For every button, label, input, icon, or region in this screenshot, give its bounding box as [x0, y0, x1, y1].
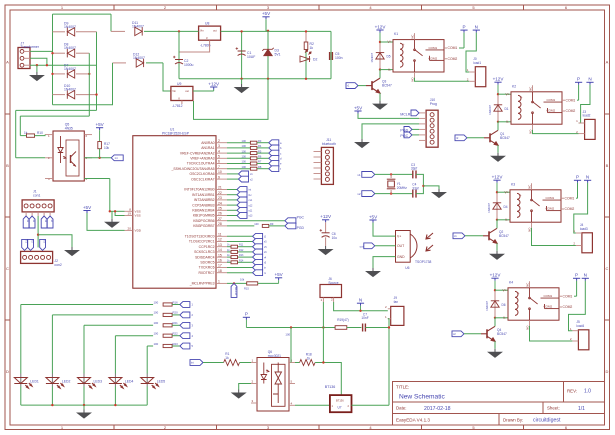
svg-text:COM2: COM2 [566, 109, 576, 113]
power label +5V MCLR [274, 272, 283, 280]
resistor R8 100 [250, 167, 257, 170]
wire fan to triac [388, 319, 390, 406]
wire +5V rail [221, 30, 331, 32]
svg-text:Vin: Vin [200, 29, 204, 33]
svg-text:10k: 10k [240, 278, 245, 282]
wire R20 to flag [172, 314, 180, 316]
wire AC sense mid [16, 109, 97, 111]
wire +12V V+ to V- K3 [496, 192, 498, 220]
svg-text:SDORC5: SDORC5 [200, 261, 214, 265]
wire x1 row [375, 173, 413, 175]
net flag s11 [237, 207, 247, 213]
net flag r2 [455, 135, 467, 141]
pin lead LED1 [20, 374, 22, 387]
wire D9 anode side [53, 31, 66, 33]
junction V+ K2 [497, 93, 499, 95]
connector J7 Transformer [18, 48, 30, 69]
svg-text:Vin: Vin [172, 89, 176, 93]
svg-text:V+: V+ [397, 234, 401, 238]
wire RC5 a [227, 261, 231, 263]
connector J6 Source [320, 285, 342, 303]
IC U1 PIC18F2520-ESP microcontroller [133, 136, 216, 289]
wire RB5 to flag [227, 215, 237, 217]
svg-text:100: 100 [242, 165, 247, 169]
junction Y1 top [390, 173, 392, 175]
crystal Y1 20MHz [387, 179, 396, 189]
svg-text:P: P [575, 273, 578, 278]
pins COM1 COM2 K4 [559, 296, 562, 307]
wire +5V to J10 pin2 [358, 114, 419, 119]
wire +5V to U6 [373, 223, 396, 237]
svg-text:PGD: PGD [297, 226, 305, 230]
wire gnd stub [241, 79, 243, 84]
wire gnd stub VSS [111, 211, 113, 219]
svg-text:1k: 1k [307, 356, 311, 360]
wire down to LED4 [114, 336, 116, 374]
svg-text:REV:: REV: [567, 389, 577, 394]
svg-text:1N4007: 1N4007 [485, 301, 489, 311]
wire V- K3 [497, 219, 510, 221]
U1 pin numbers right [218, 139, 222, 284]
wire left edge down [15, 110, 17, 157]
svg-text:V-: V- [506, 120, 509, 124]
resistor R15 10k [247, 282, 258, 285]
wire V- to collector Q1 [497, 122, 499, 131]
svg-text:1k: 1k [310, 46, 314, 50]
wire R8 to flag [257, 168, 269, 170]
svg-text:int: int [115, 156, 118, 160]
svg-text:+5V: +5V [274, 272, 283, 277]
svg-text:T0CKIC1OUTRA4: T0CKIC1OUTRA4 [187, 162, 215, 166]
svg-text:GND: GND [397, 255, 405, 259]
LED LED3 [78, 378, 96, 389]
net flag a [269, 140, 279, 146]
wire Q5 pin4 [84, 178, 110, 180]
svg-text:KBI1PGMRB5: KBI1PGMRB5 [193, 214, 215, 218]
svg-text:N: N [475, 25, 478, 30]
junction VSS gnd [109, 210, 111, 212]
wire LED5 cathode [146, 387, 148, 406]
wire R16 to flag [172, 304, 180, 306]
net flag r4 [253, 254, 263, 260]
capacitor C2 1000u [173, 56, 183, 64]
net flag int [111, 155, 123, 161]
svg-text:10UF: 10UF [247, 55, 255, 59]
wire RB4 to flag [227, 209, 237, 211]
U1 pin leads right [216, 143, 227, 284]
svg-text:B: B [6, 163, 9, 168]
svg-text:RXDTRC7: RXDTRC7 [198, 271, 214, 275]
svg-text:V+: V+ [388, 40, 392, 44]
wire U9 gnd stub [181, 101, 183, 105]
wire c1 to base [465, 235, 483, 237]
svg-text:R20: R20 [173, 311, 179, 315]
wire V- K4 [495, 317, 508, 319]
svg-text:con1: con1 [33, 193, 40, 197]
wire Y1 stub top [390, 174, 392, 178]
wire RB2 to flag [227, 199, 237, 201]
pin NO K3 [531, 222, 533, 228]
wire LED2 cathode [51, 387, 53, 406]
wire down to LED5 [146, 346, 148, 374]
svg-text:+12V: +12V [320, 214, 332, 219]
power label +5V J10 [354, 105, 363, 113]
svg-text:V-: V- [388, 68, 391, 72]
svg-text:+5V: +5V [262, 11, 271, 16]
svg-text:OSC1CLKIRA7: OSC1CLKIRA7 [191, 177, 214, 181]
net flag PGD [285, 223, 296, 229]
svg-text:con2: con2 [54, 263, 61, 267]
wire NO to load pin2 K2 [533, 130, 579, 134]
svg-text:U8: U8 [205, 22, 209, 26]
junction C1 bottom [240, 78, 242, 80]
ground LED bank [78, 410, 91, 419]
wire RA6 to flag [227, 173, 239, 175]
pins COM1 COM2 K2 [562, 100, 565, 111]
pin NC K2 [532, 85, 534, 92]
power label +12V U9 [208, 81, 220, 89]
wire RA5 to resistor [227, 168, 250, 170]
relay K2 [506, 92, 563, 124]
svg-text:1N4007: 1N4007 [64, 46, 76, 50]
wire J7 pin3 AC row [30, 64, 97, 66]
svg-text:KBI0AN11RB4: KBI0AN11RB4 [192, 209, 214, 213]
power label P K3 [574, 175, 581, 183]
net flag L2 [180, 312, 190, 318]
svg-text:COM2: COM2 [546, 207, 555, 211]
svg-text:circuitdigest: circuitdigest [533, 418, 561, 424]
net flag e [269, 161, 279, 167]
svg-text:BC547: BC547 [499, 234, 509, 238]
svg-text:KBI2PGCRB6: KBI2PGCRB6 [193, 219, 214, 223]
wire J10 pin4 [412, 128, 419, 130]
svg-text:SDISDARC4: SDISDARC4 [195, 255, 215, 259]
svg-text:COM2: COM2 [544, 305, 553, 309]
svg-text:MCLR: MCLR [234, 287, 238, 295]
net flag out [364, 243, 375, 249]
wire COM1 to P K1 [459, 47, 464, 49]
power label +12V K2 [493, 77, 505, 85]
connector J10 Prog [426, 110, 438, 147]
wire c2 to base [464, 333, 481, 335]
wire D12 out [146, 62, 163, 64]
svg-text:D1: D1 [505, 107, 509, 111]
wire RC4 a [227, 256, 231, 258]
pin leads J10 [419, 113, 426, 140]
net flag MCLR down [231, 283, 238, 297]
net flag c [269, 150, 279, 156]
junction MCLR flag [233, 282, 235, 284]
net flag PGC J10 [404, 132, 412, 138]
svg-text:1.0: 1.0 [584, 389, 591, 395]
pin lead LED3 [83, 374, 85, 387]
wire P stem K3 [577, 183, 579, 198]
svg-text:VREF+AN3RA3: VREF+AN3RA3 [190, 157, 214, 161]
resistor R20 100 [163, 313, 172, 316]
ground under J7 [30, 72, 43, 81]
wire R1 to Q6 [240, 362, 251, 364]
svg-text:PGC: PGC [297, 216, 305, 220]
net flag L1 [180, 302, 190, 308]
svg-text:+12V: +12V [375, 24, 387, 29]
svg-text:100: 100 [154, 321, 159, 325]
svg-text:+: + [520, 193, 522, 197]
relay K1 [388, 40, 445, 72]
wire C3 C4 right [416, 174, 423, 193]
svg-text:100: 100 [242, 139, 247, 143]
wire emitter to gnd Q4 [494, 341, 496, 349]
svg-text:COM1: COM1 [544, 294, 553, 298]
wire V+ K3 [497, 191, 510, 193]
diode D10 1N4007 [67, 90, 74, 98]
wire N to load pin1 K4 [569, 281, 586, 331]
svg-text:COM1: COM1 [448, 46, 458, 50]
wire LED row 4 [115, 335, 153, 337]
net flag d [269, 155, 279, 161]
svg-text:BC547: BC547 [500, 136, 510, 140]
svg-text:+5V: +5V [83, 205, 92, 210]
resistor R14 1k [231, 261, 238, 264]
svg-text:P: P [576, 175, 579, 180]
wire D12 to U9 input [163, 63, 171, 91]
svg-text:T1OSICCP2RC1: T1OSICCP2RC1 [189, 240, 215, 244]
svg-text:N: N [586, 175, 589, 180]
triac U7 BT136 [330, 395, 352, 412]
svg-text:R10: R10 [37, 131, 43, 135]
wire NO to load pin2 K1 [415, 78, 470, 82]
svg-text:COM1: COM1 [566, 98, 576, 102]
wire P to Q6 pin6 [290, 328, 292, 363]
wire AC branch down [96, 32, 98, 111]
resistor R3 100 [250, 141, 257, 144]
svg-text:5V1: 5V1 [275, 53, 281, 57]
wire D7 cathode side [76, 73, 89, 75]
junction V+ K3 [496, 191, 498, 193]
junction J6 pin1 [322, 326, 324, 328]
LED LED2 [46, 378, 64, 389]
svg-text:C: C [606, 266, 609, 271]
net flag s3 under J1 [41, 216, 47, 228]
wire bus to gnd [83, 405, 85, 409]
wire C2 vertical [178, 31, 180, 78]
wire AC sense low [20, 115, 89, 117]
net flag r2 above J2 [28, 239, 34, 250]
net flag int triac [190, 360, 203, 366]
wire RC6 to flag [227, 267, 253, 269]
svg-text:1N4007: 1N4007 [132, 25, 144, 29]
transistor Q1 BC547 [484, 130, 498, 145]
svg-text:CCP1RC2: CCP1RC2 [199, 245, 215, 249]
junction N [359, 310, 361, 312]
wire RB7 to R9 [227, 225, 254, 227]
junction [114, 404, 116, 406]
pin leads J1 [26, 212, 50, 216]
net flag L4 [180, 333, 190, 339]
zener diode D3 5V1 [262, 48, 273, 56]
resistor R6 100 [250, 157, 257, 160]
svg-text:BT136: BT136 [336, 399, 344, 403]
svg-text:COM2: COM2 [547, 109, 556, 113]
wire MCLR to R15 [227, 282, 247, 284]
wire gnd net to U9 [194, 79, 269, 120]
power label P K1 [460, 25, 467, 33]
wire U6 gnd [373, 257, 396, 268]
wire +12V V+ to V- K1 [379, 42, 381, 70]
junction D10 out [95, 93, 97, 95]
svg-text:100: 100 [154, 300, 159, 304]
svg-text:1N4007: 1N4007 [64, 67, 76, 71]
ground Q4 [489, 349, 502, 358]
net flag s4 under J1 [47, 216, 53, 228]
svg-text:+: + [518, 291, 520, 295]
wire down to D11 [110, 14, 112, 31]
svg-text:COM1: COM1 [429, 46, 438, 50]
transistor Q2 BC547 [483, 228, 497, 243]
net flag x1 crystal [362, 172, 375, 178]
svg-text:int: int [249, 189, 252, 192]
wire C2 to U8 in [179, 30, 199, 32]
IC U8 L7805 voltage regulator [199, 26, 221, 40]
LED LED5 [141, 378, 159, 389]
wire U9 out [193, 90, 214, 92]
svg-text:D: D [6, 369, 9, 374]
net flag x2 crystal [362, 191, 375, 197]
wire LED gnd bus [21, 404, 147, 406]
svg-text:A: A [606, 60, 609, 65]
junction V+ K4 [494, 289, 496, 291]
svg-text:K4: K4 [509, 280, 513, 284]
pin NO K2 [532, 124, 534, 130]
wire RC3 a [227, 251, 231, 253]
svg-text:U7: U7 [338, 406, 342, 410]
diode D12 1N4007 [136, 59, 143, 67]
svg-text:s13: s13 [249, 215, 254, 218]
wire C6 to gnd [325, 237, 327, 246]
net flag s2 under J1 [29, 216, 35, 228]
wire J6 pin1 down [322, 302, 324, 328]
net flag r5 [253, 259, 263, 265]
wire R7 to flag [257, 163, 269, 165]
wire LED4 cathode [114, 387, 116, 406]
net flag s5 [253, 239, 263, 245]
svg-text:x1: x1 [357, 173, 361, 177]
pins COM1 COM2 K1 [444, 48, 447, 59]
wire R6 to flag [257, 157, 269, 159]
wire V+ K4 [495, 289, 508, 291]
wire RB0 to flag [227, 189, 237, 191]
svg-text:+12V: +12V [208, 81, 220, 86]
junction D3 bottom [267, 78, 269, 80]
svg-text:V+: V+ [505, 190, 509, 194]
net flag s13 [237, 213, 247, 219]
wire x2 row [375, 193, 413, 195]
svg-text:A: A [6, 60, 9, 65]
junction +5V tap [267, 30, 269, 32]
junction pin5/R17 [98, 157, 100, 159]
wire J7 pin1 to bridge bus [30, 50, 53, 52]
wire RB3 to flag [227, 204, 237, 206]
power label P K2 [575, 77, 582, 85]
wire N to load pin1 K2 [579, 85, 590, 123]
wire RB1 to flag [227, 194, 237, 196]
svg-text:TXCKRC6: TXCKRC6 [199, 266, 215, 270]
net flag rx [253, 270, 263, 276]
junction D7 out [88, 73, 90, 75]
svg-text:V-: V- [503, 316, 506, 320]
wire J6 pin1 down to gate row [322, 328, 324, 363]
wire D8-D7 junction down [88, 53, 90, 116]
svg-text:+5V: +5V [354, 105, 363, 110]
wire LED row 5 [147, 345, 153, 347]
net flag r1 [346, 83, 358, 89]
junction V- K4 [494, 317, 496, 319]
svg-text:load1: load1 [473, 61, 481, 65]
svg-text:Drawn By:: Drawn By: [503, 417, 523, 422]
wire P row to R19 [246, 327, 335, 329]
LED LED4 [109, 378, 127, 389]
junction P to pin6 [290, 326, 292, 328]
wire R5 to flag [257, 152, 269, 154]
svg-text:19: 19 [128, 212, 132, 216]
wire RA2 to resistor [227, 152, 250, 154]
junction gate row [322, 361, 324, 363]
svg-text:B: B [606, 163, 609, 168]
power label N fan [357, 298, 364, 306]
LED LED1 [14, 378, 32, 389]
wire J9 pin1 stub [388, 318, 389, 320]
IC U6 TSOP1738 IR receiver [396, 231, 434, 263]
power label +12V C6 [320, 214, 332, 222]
svg-text:C: C [6, 266, 9, 271]
svg-text:R15: R15 [244, 287, 249, 291]
wire N to load pin1 K1 [466, 33, 476, 72]
svg-text:U6: U6 [405, 266, 409, 270]
svg-text:4N35: 4N35 [65, 126, 73, 130]
capacitor C7 10nF [363, 324, 366, 332]
wire VSS2 [115, 211, 124, 215]
resistor R22 100 [163, 334, 172, 337]
wire RA0 to resistor [227, 142, 250, 144]
svg-text:P: P [462, 25, 465, 30]
net flag L5 [180, 343, 190, 349]
svg-text:Transformer: Transformer [21, 45, 40, 49]
svg-text:KBI3PGDRB7: KBI3PGDRB7 [193, 224, 214, 228]
svg-text:+: + [403, 43, 405, 47]
wire NO to load pin2 K4 [530, 326, 573, 341]
wire LED row 3 [84, 324, 153, 326]
svg-text:1000u: 1000u [184, 63, 194, 67]
junction pin2/pin3 [46, 64, 48, 66]
svg-text:-L7812: -L7812 [172, 104, 183, 108]
wire r2 to base [467, 137, 484, 139]
pin lead LED5 [146, 374, 148, 387]
ground J10 [356, 139, 369, 148]
title block [393, 382, 605, 426]
wire emitter to gnd Q3 [379, 93, 381, 101]
svg-text:LED4: LED4 [125, 380, 134, 384]
wire R21 to flag [172, 324, 180, 326]
svg-text:BT136: BT136 [325, 385, 336, 389]
wire stub [52, 104, 54, 106]
svg-text:bluetooth: bluetooth [322, 142, 336, 146]
junction snubber [388, 326, 390, 328]
resistor R13 1k [231, 256, 238, 259]
svg-text:100: 100 [154, 332, 159, 336]
svg-text:D2: D2 [313, 58, 317, 62]
svg-text:NC: NC [528, 87, 532, 91]
wire R17 to node [99, 149, 101, 158]
wire triac out to fan [352, 404, 390, 406]
